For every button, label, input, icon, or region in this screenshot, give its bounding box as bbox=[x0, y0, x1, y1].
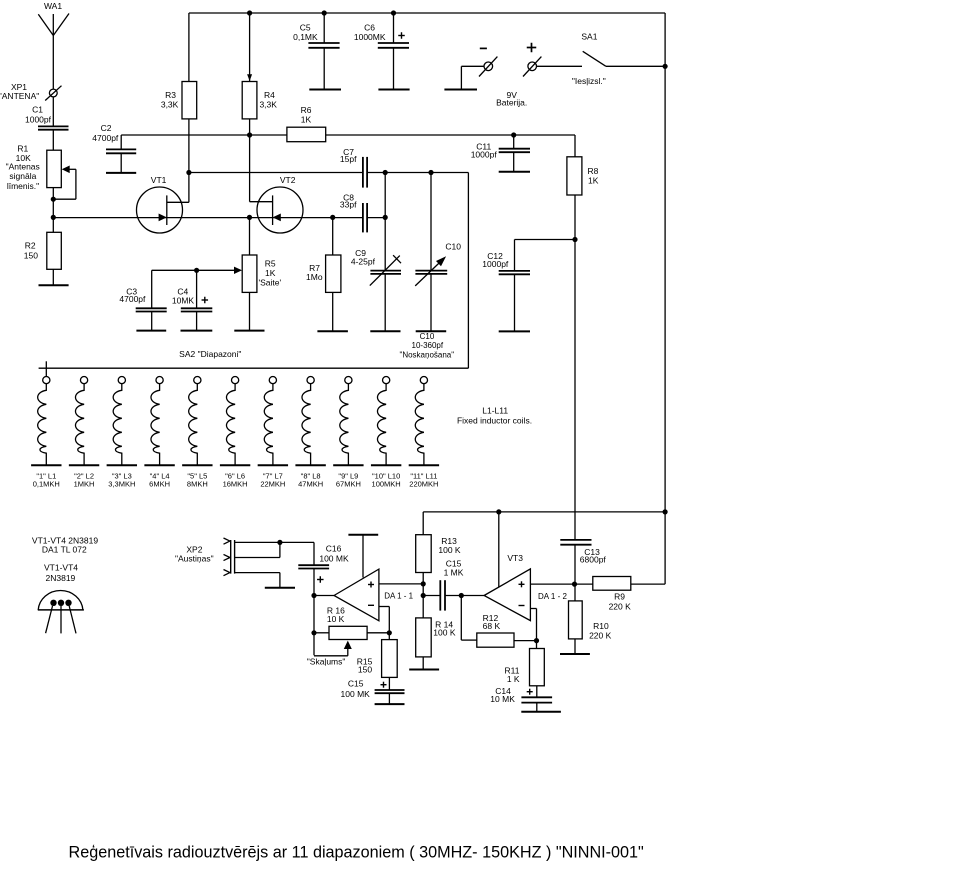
svg-text:L1-L11: L1-L11 bbox=[482, 406, 508, 416]
svg-text:"Iesļizsl.": "Iesļizsl." bbox=[572, 76, 606, 86]
svg-text:R1: R1 bbox=[17, 143, 28, 153]
svg-text:6MKH: 6MKH bbox=[149, 479, 170, 488]
svg-text:C6: C6 bbox=[364, 23, 375, 33]
svg-text:"ANTENA": "ANTENA" bbox=[0, 91, 39, 101]
svg-text:C1: C1 bbox=[32, 104, 43, 114]
svg-text:10MK: 10MK bbox=[172, 296, 195, 306]
svg-text:0,1MKH: 0,1MKH bbox=[33, 479, 60, 488]
svg-text:16MKH: 16MKH bbox=[223, 479, 248, 488]
svg-text:Reģenetīvais radiouztvērējs ar: Reģenetīvais radiouztvērējs ar 11 diapaz… bbox=[69, 844, 645, 862]
svg-text:1 K: 1 K bbox=[507, 674, 520, 684]
svg-text:100MKH: 100MKH bbox=[372, 479, 401, 488]
svg-text:22MKH: 22MKH bbox=[260, 479, 285, 488]
svg-text:100 MK: 100 MK bbox=[341, 689, 371, 699]
svg-text:VT1-VT4: VT1-VT4 bbox=[44, 562, 78, 572]
svg-text:220MKH: 220MKH bbox=[409, 479, 438, 488]
svg-text:DA1 TL 072: DA1 TL 072 bbox=[42, 545, 87, 555]
svg-text:SA2 "Diapazoni": SA2 "Diapazoni" bbox=[179, 349, 241, 359]
svg-text:150: 150 bbox=[358, 665, 372, 675]
svg-text:C2: C2 bbox=[101, 123, 112, 133]
svg-text:'Saite': 'Saite' bbox=[258, 277, 281, 287]
svg-text:15pf: 15pf bbox=[340, 154, 357, 164]
svg-text:10 K: 10 K bbox=[327, 614, 345, 624]
svg-text:1000MK: 1000MK bbox=[354, 32, 386, 42]
svg-text:DA 1 - 2: DA 1 - 2 bbox=[538, 592, 567, 601]
svg-text:47MKH: 47MKH bbox=[298, 479, 323, 488]
svg-text:VT3: VT3 bbox=[507, 553, 523, 563]
svg-text:1000pf: 1000pf bbox=[471, 149, 498, 159]
svg-text:10-360pf: 10-360pf bbox=[412, 341, 444, 350]
svg-text:Baterija.: Baterija. bbox=[496, 97, 527, 107]
svg-text:1 MK: 1 MK bbox=[444, 568, 464, 578]
svg-text:6800pf: 6800pf bbox=[580, 555, 607, 565]
svg-text:R4: R4 bbox=[264, 90, 275, 100]
svg-text:1Mo: 1Mo bbox=[306, 272, 323, 282]
svg-text:0,1MK: 0,1MK bbox=[293, 32, 318, 42]
svg-text:līmenis.": līmenis." bbox=[7, 181, 39, 191]
svg-text:C15: C15 bbox=[348, 679, 364, 689]
svg-text:1K: 1K bbox=[588, 176, 599, 186]
svg-text:1MKH: 1MKH bbox=[74, 479, 95, 488]
svg-text:100 MK: 100 MK bbox=[319, 553, 349, 563]
svg-text:33pf: 33pf bbox=[340, 200, 357, 210]
svg-text:SA1: SA1 bbox=[581, 32, 597, 42]
svg-text:WA1: WA1 bbox=[44, 1, 62, 11]
svg-text:100 K: 100 K bbox=[433, 627, 456, 637]
svg-text:C16: C16 bbox=[326, 544, 342, 554]
svg-text:VT1: VT1 bbox=[151, 175, 167, 185]
svg-text:"Austiņas": "Austiņas" bbox=[175, 554, 214, 564]
svg-text:220 K: 220 K bbox=[609, 601, 632, 611]
svg-text:C5: C5 bbox=[300, 23, 311, 33]
svg-text:DA 1 - 1: DA 1 - 1 bbox=[384, 591, 413, 600]
svg-text:2N3819: 2N3819 bbox=[46, 573, 76, 583]
svg-text:8MKH: 8MKH bbox=[187, 479, 208, 488]
svg-text:4700pf: 4700pf bbox=[119, 294, 146, 304]
svg-text:R9: R9 bbox=[614, 591, 625, 601]
svg-text:R10: R10 bbox=[593, 621, 609, 631]
svg-text:3,3K: 3,3K bbox=[161, 100, 179, 110]
svg-text:4700pf: 4700pf bbox=[92, 133, 119, 143]
svg-text:1000pf: 1000pf bbox=[25, 114, 52, 124]
svg-text:220 K: 220 K bbox=[589, 631, 612, 641]
svg-text:67MKH: 67MKH bbox=[336, 479, 361, 488]
svg-text:150: 150 bbox=[24, 250, 38, 260]
svg-text:C10: C10 bbox=[445, 242, 461, 252]
svg-text:"Skaļums": "Skaļums" bbox=[307, 657, 346, 667]
svg-text:3,3MKH: 3,3MKH bbox=[108, 479, 135, 488]
svg-text:signāla: signāla bbox=[9, 171, 36, 181]
svg-text:R3: R3 bbox=[165, 90, 176, 100]
svg-text:VT2: VT2 bbox=[280, 175, 296, 185]
svg-text:10 MK: 10 MK bbox=[490, 694, 515, 704]
svg-text:1000pf: 1000pf bbox=[482, 259, 509, 269]
svg-text:1K: 1K bbox=[301, 114, 312, 124]
svg-text:R5: R5 bbox=[265, 259, 276, 269]
svg-text:4-25pf: 4-25pf bbox=[351, 256, 376, 266]
svg-text:R2: R2 bbox=[25, 241, 36, 251]
svg-text:100 K: 100 K bbox=[438, 545, 461, 555]
svg-text:Fixed inductor coils.: Fixed inductor coils. bbox=[457, 416, 532, 426]
svg-text:3,3K: 3,3K bbox=[259, 100, 277, 110]
svg-text:"Noskaņošana": "Noskaņošana" bbox=[399, 350, 454, 359]
svg-text:68 K: 68 K bbox=[483, 621, 501, 631]
svg-text:R8: R8 bbox=[587, 166, 598, 176]
